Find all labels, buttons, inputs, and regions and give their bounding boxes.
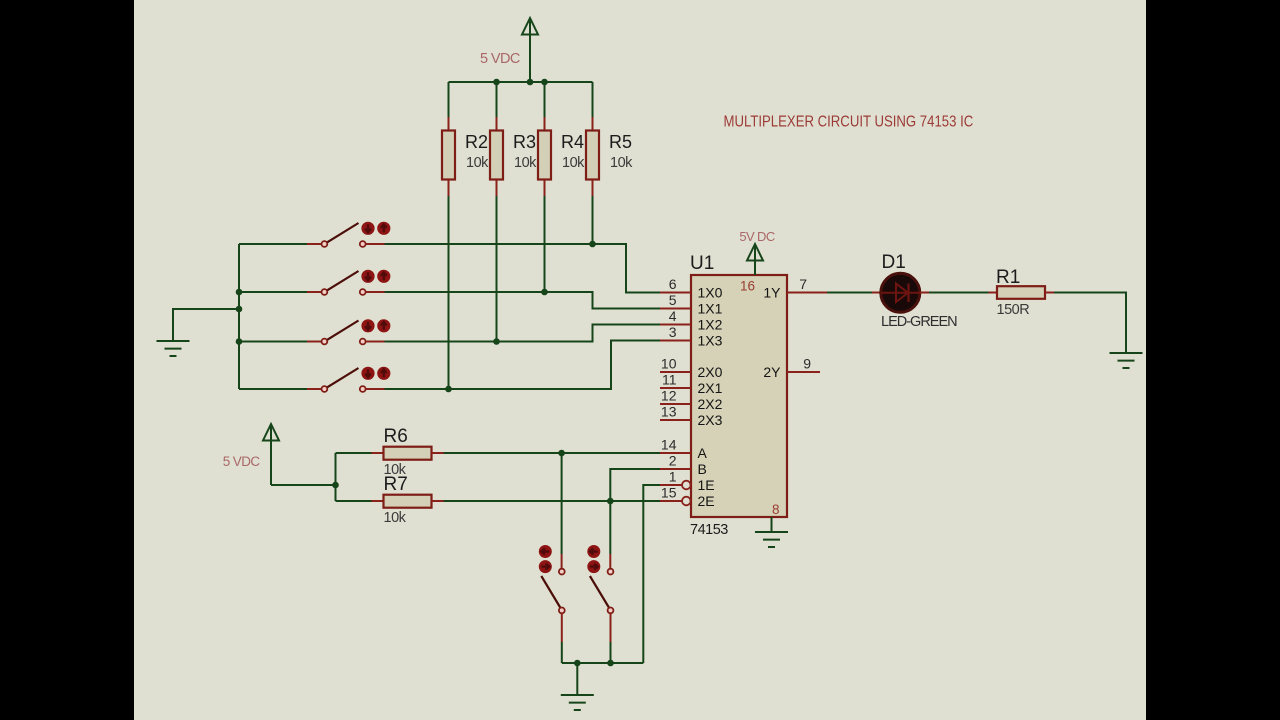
pin 5 lead (660, 308, 691, 310)
power 5V DC at IC (739, 229, 775, 275)
svg-text:1X0: 1X0 (698, 285, 723, 301)
title text (724, 114, 974, 131)
wire R3 column down (496, 196, 498, 342)
svg-text:MULTIPLEXER CIRCUIT USING 7415: MULTIPLEXER CIRCUIT USING 74153 IC (724, 114, 974, 131)
node rail-power (527, 79, 534, 86)
svg-text:5 VDC: 5 VDC (223, 454, 261, 469)
wire R4 column down (544, 196, 546, 292)
pin 14 lead (660, 452, 691, 454)
wire top rail (449, 81, 593, 83)
svg-text:10k: 10k (562, 155, 585, 171)
ground left (157, 341, 190, 356)
pin 1 lead inverted (660, 484, 682, 486)
wire LED to R1 (929, 292, 989, 294)
black pillar left (0, 0, 134, 720)
svg-text:15: 15 (661, 485, 677, 501)
svg-text:10k: 10k (610, 155, 633, 171)
svg-text:R3: R3 (513, 132, 536, 152)
wire row3 to pin4 (385, 325, 661, 342)
node bus row3 (236, 338, 243, 345)
svg-text:16: 16 (740, 279, 755, 294)
node row1-R5 (589, 241, 596, 248)
svg-text:1X1: 1X1 (698, 301, 723, 317)
node rail-R4 (541, 79, 548, 86)
node bus ground (236, 306, 243, 313)
wire R1 to ground (1054, 293, 1126, 354)
wire pin1 down (643, 485, 660, 663)
wire R7 to pin15 (444, 500, 661, 502)
node rail-R3 (493, 79, 500, 86)
svg-text:1E: 1E (698, 477, 715, 493)
resistor R6 (336, 426, 444, 478)
wire branch to pin2 (610, 469, 660, 501)
svg-text:11: 11 (662, 372, 677, 388)
svg-text:7: 7 (799, 276, 807, 292)
switch SW1 (239, 222, 390, 247)
svg-text:R4: R4 (561, 132, 584, 152)
svg-text:3: 3 (669, 324, 677, 340)
wire power to bus (271, 484, 336, 486)
svg-text:R2: R2 (465, 132, 488, 152)
svg-text:74153: 74153 (690, 522, 728, 538)
svg-text:5 VDC: 5 VDC (480, 51, 520, 67)
svg-text:10k: 10k (466, 155, 489, 171)
pin 4 lead (660, 324, 691, 326)
wire row1 to pin6 (385, 244, 661, 293)
svg-text:B: B (698, 461, 707, 477)
svg-text:2X0: 2X0 (698, 364, 723, 380)
ground bottom (561, 695, 594, 710)
pin labels inside IC (698, 285, 782, 510)
svg-text:5V DC: 5V DC (739, 229, 775, 244)
pin 15 lead inverted (660, 500, 682, 502)
wire gnd stem (576, 663, 578, 695)
resistor R3 (490, 82, 537, 196)
svg-text:9: 9 (803, 356, 811, 372)
svg-text:2Y: 2Y (763, 364, 781, 380)
svg-text:R7: R7 (384, 474, 408, 495)
pin 2 lead (660, 468, 691, 470)
resistor R5 (586, 82, 633, 196)
switch SW2 (239, 270, 390, 295)
switch SW3 (239, 319, 390, 344)
pin numbers (661, 276, 811, 501)
pin 11 lead (660, 387, 691, 389)
svg-text:1X3: 1X3 (698, 333, 723, 349)
wire left bus (238, 244, 240, 389)
power 5VDC bottom left (223, 424, 279, 485)
svg-text:10k: 10k (384, 510, 407, 526)
svg-text:D1: D1 (882, 252, 906, 273)
node row3-R3 (493, 338, 500, 345)
svg-text:2E: 2E (698, 493, 715, 509)
wire row4 to pin3 (385, 341, 661, 390)
pin 10 lead (660, 371, 691, 373)
power 5VDC top (480, 18, 538, 82)
wire R6R7 bus (335, 453, 337, 501)
wire pin7 to LED (827, 292, 872, 294)
svg-text:LED-GREEN: LED-GREEN (881, 314, 957, 330)
node row2-R4 (541, 289, 548, 296)
svg-text:5: 5 (669, 292, 677, 308)
resistor R4 (538, 82, 585, 196)
svg-text:150R: 150R (997, 302, 1030, 318)
IC U1 74153 (690, 253, 787, 538)
svg-text:2X2: 2X2 (698, 396, 723, 412)
node bus row2 (236, 289, 243, 296)
node R7 cross (607, 498, 614, 505)
svg-text:6: 6 (669, 276, 677, 292)
svg-text:2X3: 2X3 (698, 412, 723, 428)
svg-text:A: A (698, 445, 708, 461)
svg-text:10k: 10k (514, 155, 537, 171)
switch SW4 (239, 367, 390, 392)
svg-text:2: 2 (669, 453, 677, 469)
pin 9 lead (787, 371, 820, 373)
wire R5 column down (592, 196, 594, 244)
node bus gnd (574, 660, 581, 667)
pin 13 lead (660, 419, 691, 421)
switch SW6 (587, 501, 613, 663)
svg-text:1X2: 1X2 (698, 317, 723, 333)
pin 6 lead (660, 292, 691, 294)
svg-text:1Y: 1Y (763, 285, 781, 301)
svg-text:R1: R1 (996, 267, 1020, 288)
node R6 switchA (558, 450, 565, 457)
ground at IC pin 8 (771, 517, 773, 532)
svg-text:1: 1 (669, 469, 677, 485)
svg-text:2X1: 2X1 (698, 380, 723, 396)
svg-text:R6: R6 (384, 426, 408, 447)
svg-text:10: 10 (661, 356, 677, 372)
wire bottom bus (562, 662, 644, 664)
node bus sw6 (607, 660, 614, 667)
svg-text:4: 4 (669, 308, 677, 324)
svg-text:12: 12 (661, 388, 677, 404)
wire ground branch (173, 309, 239, 341)
resistor R2 (442, 82, 489, 196)
resistor R7 (336, 474, 444, 526)
pin 3 lead (660, 340, 691, 342)
black pillar right (1146, 0, 1280, 720)
LED D1 (872, 252, 957, 330)
pin 12 lead (660, 403, 691, 405)
ground right (1110, 353, 1143, 368)
svg-text:14: 14 (661, 437, 677, 453)
svg-text:13: 13 (661, 404, 677, 420)
svg-text:8: 8 (772, 502, 780, 517)
svg-text:U1: U1 (690, 253, 714, 274)
wire row2 to pin5 (385, 292, 661, 309)
wire R2 column down (448, 196, 450, 389)
node bus power (332, 482, 339, 489)
wire R6 to pin14 (444, 452, 661, 454)
node row4-R2 (445, 386, 452, 393)
resistor R1 (989, 267, 1055, 318)
pin 7 lead (787, 292, 827, 294)
svg-text:R5: R5 (609, 132, 632, 152)
switch SW5 (539, 453, 565, 663)
